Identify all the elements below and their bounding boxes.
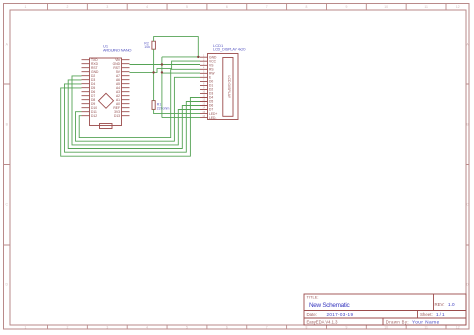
svg-text:Sheet:: Sheet:	[420, 312, 433, 317]
resistor R1 body	[152, 101, 155, 110]
lcd LCD1 display window rect	[223, 58, 233, 117]
wire R2 top to GND node	[154, 37, 199, 57]
svg-text:3: 3	[106, 326, 108, 330]
junction dot R1 top at 5V wire	[152, 71, 154, 73]
svg-text:2: 2	[66, 5, 68, 9]
ruler row letters	[5, 43, 469, 287]
wire arduino D12 to LCD RS pin	[79, 69, 200, 137]
svg-text:2017-03-19: 2017-03-19	[327, 312, 354, 317]
svg-text:1/1: 1/1	[436, 312, 445, 317]
arduino U1 usb connector rect	[100, 124, 113, 129]
svg-text:5: 5	[186, 326, 188, 330]
wire arduino D4 to LCD D5 pin	[65, 84, 201, 152]
svg-text:10: 10	[384, 326, 388, 330]
svg-text:4: 4	[146, 5, 148, 9]
lcd LCD1 pin name labels	[209, 55, 217, 119]
lcd LCD1 pin numbers	[202, 54, 205, 117]
svg-text:8: 8	[306, 5, 308, 9]
lcd LCD1 pin stubs	[200, 57, 208, 117]
svg-text:EasyEDA V4.1.3: EasyEDA V4.1.3	[307, 319, 339, 324]
svg-text:A: A	[6, 43, 9, 47]
svg-text:LCD_DISPLAY 4x20: LCD_DISPLAY 4x20	[213, 48, 246, 52]
svg-text:2: 2	[66, 326, 68, 330]
wire arduino D5 to LCD D4 pin	[61, 88, 200, 156]
arduino U1 diamond mark	[99, 93, 114, 108]
wire R1 bottom to LCD LED+ pin	[154, 109, 200, 113]
arduino U1 left pin stubs	[82, 60, 90, 116]
svg-text:D13: D13	[114, 114, 120, 118]
svg-text:REV:: REV:	[435, 302, 445, 307]
arduino U1 body	[82, 58, 130, 129]
svg-text:5: 5	[186, 5, 188, 9]
svg-text:11: 11	[424, 326, 428, 330]
junction dot arduino GND pin at trunk	[161, 63, 163, 65]
svg-text:7: 7	[266, 5, 268, 9]
arduino U1 right pin name labels	[113, 58, 121, 118]
svg-text:New Schematic: New Schematic	[309, 302, 350, 309]
wire GND top to LCD GND pin	[162, 56, 200, 58]
svg-text:4: 4	[146, 326, 148, 330]
svg-text:TITLE:: TITLE:	[307, 295, 319, 300]
svg-text:D12: D12	[91, 114, 97, 118]
svg-text:9: 9	[345, 326, 347, 330]
svg-text:220ohm: 220ohm	[157, 107, 170, 111]
svg-text:11: 11	[424, 5, 428, 9]
svg-text:D: D	[5, 283, 8, 287]
svg-text:1: 1	[25, 5, 27, 9]
svg-text:10k: 10k	[144, 45, 150, 49]
junction dot RW branch at trunk	[161, 71, 163, 73]
wire R1 top to 5V net	[153, 72, 155, 100]
svg-text:6: 6	[226, 326, 228, 330]
wires	[61, 37, 200, 157]
svg-text:C: C	[5, 203, 8, 207]
svg-text:Your Name: Your Name	[412, 319, 440, 324]
svg-text:B: B	[6, 123, 9, 127]
wire arduino D2 to LCD D7 pin	[72, 76, 200, 145]
svg-text:LED-: LED-	[209, 116, 217, 120]
wire R2 bottom to 5V node	[153, 49, 155, 72]
arduino U1 right pin stubs	[122, 60, 130, 116]
svg-text:Date:: Date:	[307, 312, 318, 317]
svg-text:12: 12	[456, 5, 460, 9]
wire GND trunk vertical	[161, 57, 163, 118]
svg-text:7: 7	[266, 326, 268, 330]
svg-text:8: 8	[306, 326, 308, 330]
wire GND trunk to LCD LED- pin	[162, 117, 200, 119]
wire arduino D11 to LCD E pin	[76, 77, 201, 141]
svg-text:3: 3	[106, 5, 108, 9]
resistor R2 body	[152, 41, 156, 49]
svg-text:ARDUINO NANO: ARDUINO NANO	[103, 48, 132, 53]
svg-text:6: 6	[226, 5, 228, 9]
junction dot GND net at R2 branch	[197, 56, 199, 58]
svg-text:1.0: 1.0	[448, 302, 455, 307]
svg-text:12: 12	[456, 326, 460, 330]
wire arduino D3 to LCD D6 pin	[68, 80, 200, 149]
svg-text:1: 1	[25, 326, 27, 330]
title block outline	[304, 294, 466, 325]
svg-text:LCD DISPLAY: LCD DISPLAY	[227, 76, 231, 99]
arduino U1 left pin name labels	[91, 58, 99, 118]
svg-text:Drawn By:: Drawn By:	[386, 319, 409, 324]
lcd LCD1 body	[200, 54, 238, 120]
svg-text:10: 10	[384, 5, 388, 9]
wire arduino 5V pin to LCD VCC pin	[130, 61, 201, 72]
svg-text:9: 9	[345, 5, 347, 9]
wire GND trunk to LCD RW pin	[162, 72, 200, 74]
wire arduino GND pin through trunk to LCD VS pin	[130, 64, 201, 66]
